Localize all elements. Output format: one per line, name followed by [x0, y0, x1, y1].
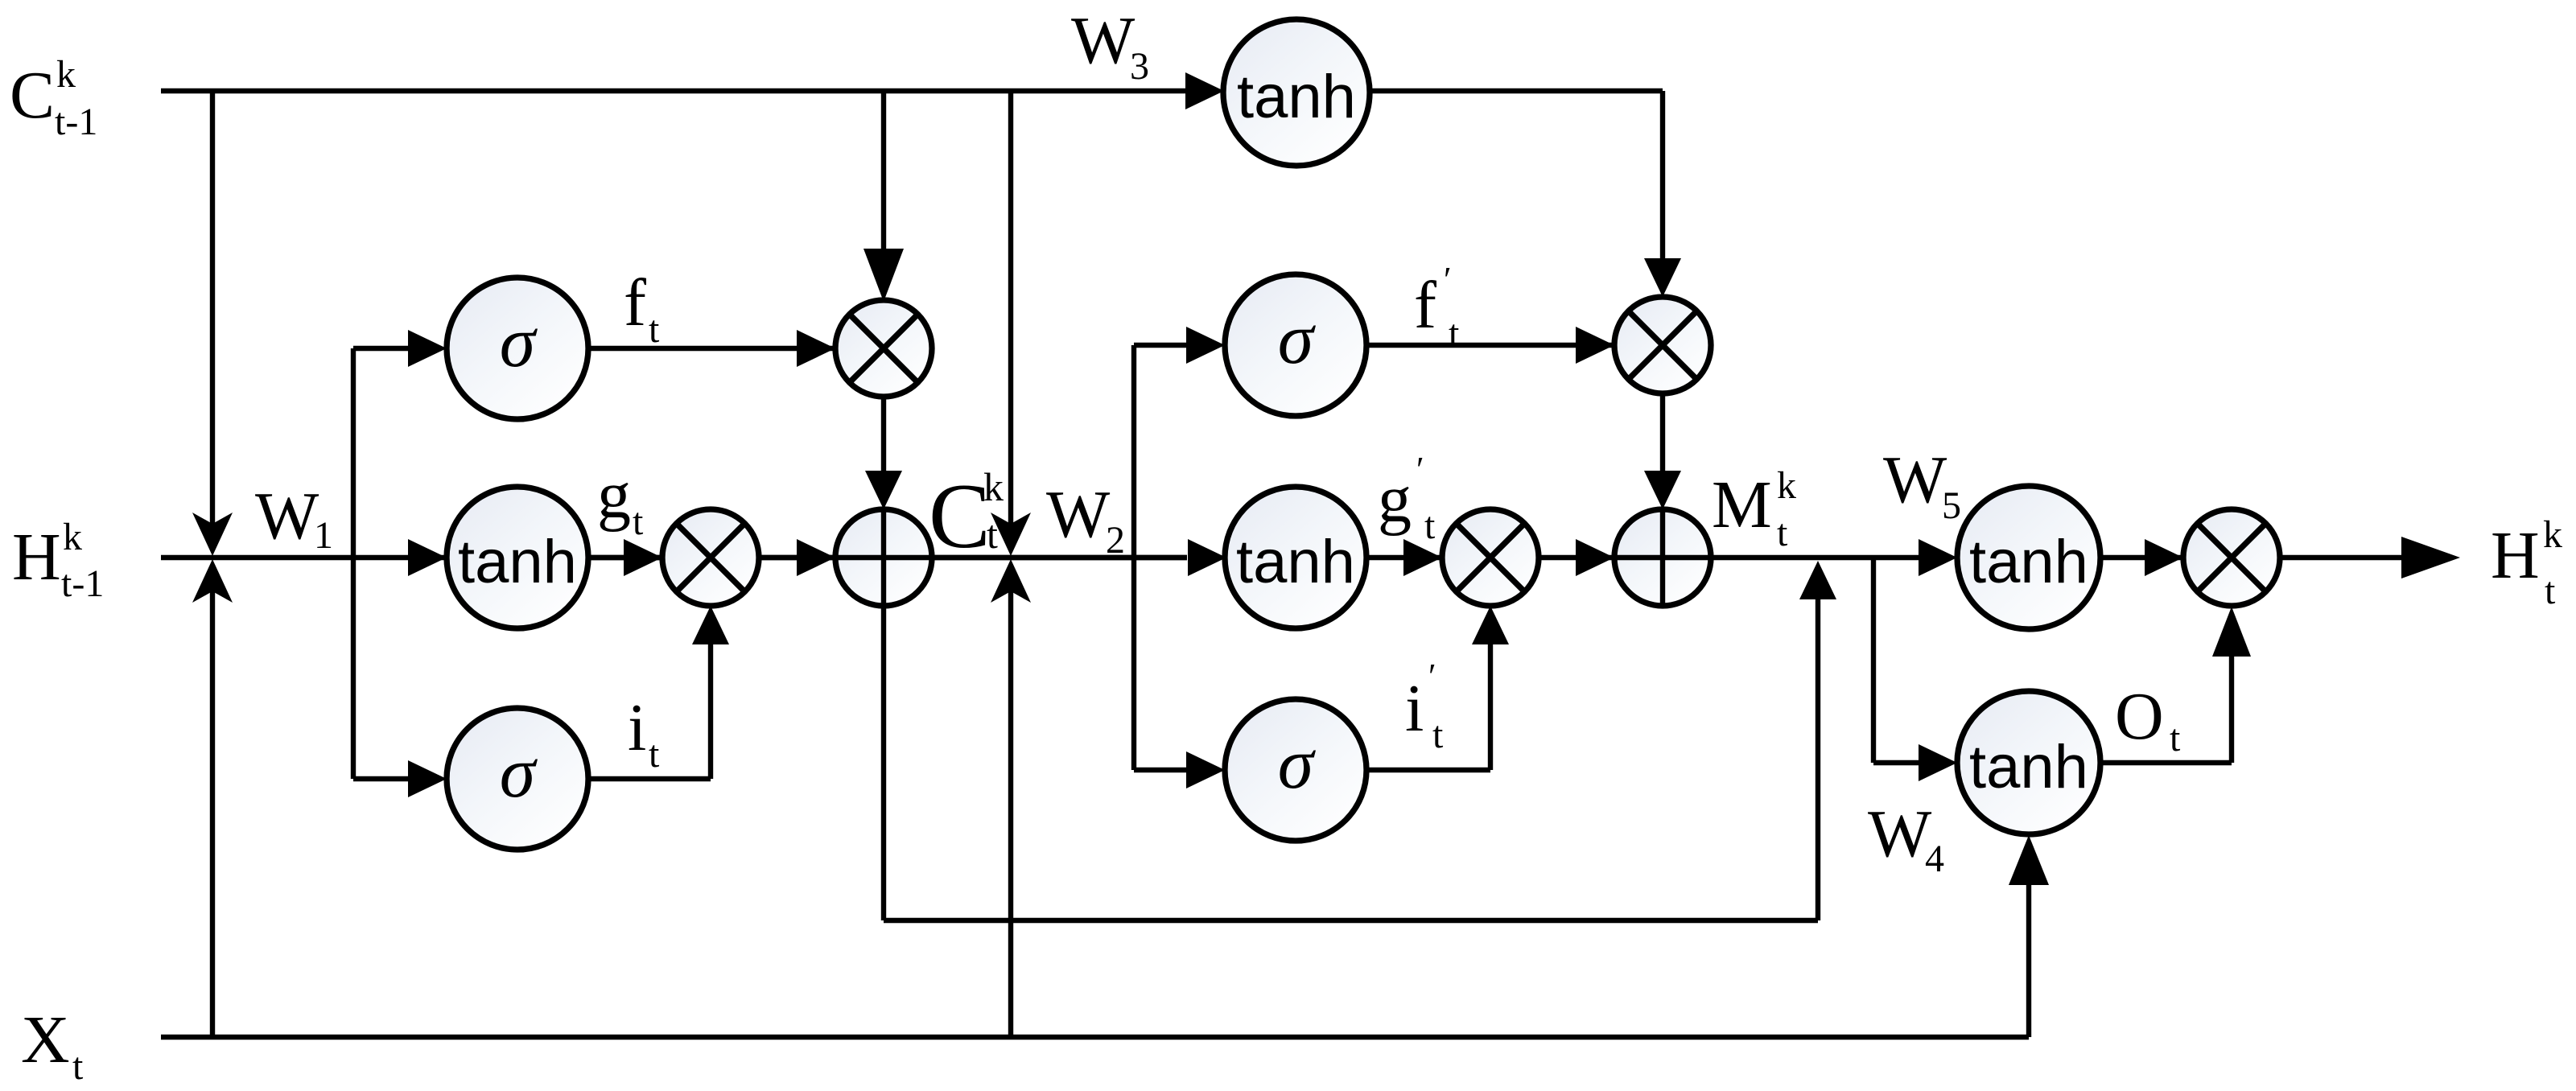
wire multiplier f down to adder C — [881, 397, 886, 476]
wire H(t-1) line into tanh g — [161, 555, 1187, 560]
svg-text:t: t — [1432, 714, 1444, 756]
svg-text:t: t — [2545, 570, 2556, 612]
wire W2 vertical from C line down to H line — [1008, 91, 1013, 524]
svg-text:2: 2 — [1106, 519, 1125, 562]
arrowhead into sigma i2 — [1186, 751, 1225, 788]
svg-text:t: t — [633, 500, 644, 543]
wire tanh g to multiplier g — [588, 555, 666, 560]
label O_t — [2115, 679, 2181, 760]
wire right branch vertical — [1131, 345, 1136, 770]
wire i2_t from sigma i2 right then up to multiplier g2 — [1366, 641, 1490, 770]
svg-text:σ: σ — [500, 303, 538, 382]
arrowhead into adder C top — [865, 471, 902, 509]
arrowhead W2 merge down — [991, 513, 1031, 556]
svg-text:C: C — [929, 465, 991, 567]
svg-text:tanh: tanh — [1237, 63, 1356, 131]
arrowhead into tanh g — [408, 539, 447, 576]
arrowhead W1 merge down — [192, 513, 233, 556]
svg-text:f: f — [624, 266, 646, 340]
op adder M (+) — [1614, 509, 1711, 606]
svg-text:t: t — [72, 1045, 84, 1087]
wire W2 vertical from X line up to H line — [1008, 591, 1013, 1037]
svg-text:k: k — [63, 516, 82, 558]
label W3 — [1071, 3, 1149, 88]
svg-text:tanh: tanh — [1969, 733, 2088, 801]
svg-text:k: k — [2543, 513, 2562, 556]
arrowhead into tanh W3 — [1185, 72, 1224, 109]
op multiplier g2 (x) — [1442, 509, 1539, 606]
label W1 — [255, 479, 333, 557]
arrowhead into multiplier f2 — [1576, 327, 1614, 364]
op tanh W4 — [1957, 691, 2100, 834]
arrowhead into tanh W4 — [1919, 744, 1957, 781]
op multiplier g (x) — [662, 509, 759, 606]
svg-text:t: t — [649, 308, 660, 351]
wire branch to sigma i — [353, 776, 410, 781]
svg-text:t: t — [987, 512, 998, 557]
node X_t input label — [21, 1002, 84, 1088]
svg-text:W: W — [255, 479, 319, 554]
svg-text:′: ′ — [1416, 450, 1424, 489]
svg-text:W: W — [1883, 443, 1947, 517]
wire multiplier g to adder C — [759, 555, 839, 560]
wire branch to sigma i2 — [1134, 768, 1189, 772]
svg-text:t: t — [1449, 312, 1460, 355]
svg-text:W: W — [1046, 477, 1111, 552]
arrowhead into adder M top — [1644, 471, 1681, 509]
arrowhead into multiplier out — [2145, 539, 2183, 576]
op tanh g2 (right candidate) — [1225, 487, 1366, 628]
wire C line branch down into multiplier f — [881, 91, 886, 252]
op tanh g (left candidate) — [447, 487, 588, 628]
op sigma f (left forget gate) — [447, 278, 588, 419]
svg-text:5: 5 — [1942, 484, 1961, 527]
arrowhead into sigma i — [408, 760, 447, 797]
svg-text:t: t — [2170, 717, 2181, 760]
wire f_t from sigma f to multiplier f — [588, 346, 839, 351]
arrowhead into multiplier g — [624, 539, 662, 576]
wire X_t bottom line — [161, 877, 2029, 1037]
svg-text:σ: σ — [500, 733, 538, 813]
wire tanh W4 output right then up to multiplier out — [2100, 653, 2232, 763]
op sigma i (left input gate) — [447, 708, 588, 850]
arrowhead into adder M — [1576, 539, 1614, 576]
wire i_t from sigma i right then up to multiplier g — [588, 641, 711, 779]
svg-text:t: t — [649, 733, 660, 776]
node C(t-1) input label — [10, 53, 97, 143]
svg-text:t: t — [1777, 512, 1788, 554]
svg-text:1: 1 — [314, 514, 333, 557]
wire adder C through W2 junction to tanh g2 — [835, 555, 1187, 560]
svg-text:i: i — [628, 690, 646, 765]
op multiplier f (x) — [835, 300, 932, 397]
node H_t output label — [2491, 513, 2562, 612]
op multiplier out (x) — [2183, 509, 2280, 606]
svg-text:σ: σ — [1278, 724, 1317, 804]
wire multiplier g2 to adder M — [1539, 555, 1618, 560]
wire adder M vertical lower half — [1660, 558, 1665, 606]
wire adder C vertical through circle down to bus, bus right, up to H line — [884, 509, 1818, 920]
svg-text:′: ′ — [1428, 657, 1436, 696]
svg-text:k: k — [56, 53, 76, 96]
svg-text:g: g — [1378, 462, 1412, 537]
arrowhead into multiplier f top — [863, 249, 904, 302]
label i_t — [628, 690, 660, 776]
op tanh W3 — [1223, 19, 1370, 166]
wire left branch vertical — [351, 348, 356, 779]
arrowhead bus merge up into M line — [1799, 561, 1836, 599]
arrowhead into tanh W5 — [1919, 539, 1957, 576]
svg-text:t-1: t-1 — [55, 101, 97, 143]
label W4 — [1868, 797, 1944, 880]
arrowhead into multiplier g bottom — [692, 606, 729, 644]
wire multiplier f2 down to adder M — [1660, 393, 1665, 476]
svg-text:tanh: tanh — [1969, 528, 2088, 596]
arrowhead into sigma f — [408, 330, 447, 367]
arrowhead into top-right multiplier — [1644, 258, 1681, 297]
label W5 — [1883, 443, 1961, 527]
op sigma i2 (right input gate) — [1225, 699, 1366, 841]
arrowhead into tanh g2 — [1188, 539, 1226, 576]
svg-text:k: k — [983, 464, 1004, 509]
node C_t label — [929, 464, 1004, 567]
op sigma f2 (right forget gate) — [1225, 274, 1366, 416]
op adder C (+) — [835, 509, 932, 606]
wire multiplier out to H_t output — [2280, 555, 2406, 560]
wire tanh W3 output right then down to multiplier — [1370, 91, 1663, 260]
svg-text:g: g — [597, 458, 631, 533]
svg-text:C: C — [10, 58, 55, 133]
arrowhead into adder C — [797, 539, 835, 576]
arrowhead into multiplier f — [797, 330, 835, 367]
wire branch to sigma f — [353, 346, 410, 351]
wire f2_t from sigma f2 to multiplier f2 — [1366, 343, 1618, 348]
svg-text:O: O — [2115, 679, 2164, 754]
label f2_t — [1414, 260, 1460, 355]
svg-text:W: W — [1071, 3, 1136, 78]
arrowhead into multiplier g2 bottom — [1472, 606, 1509, 644]
svg-text:H: H — [12, 520, 61, 595]
wire tanh W5 to multiplier out — [2100, 555, 2187, 560]
node H(t-1) input label — [12, 516, 104, 605]
svg-text:H: H — [2491, 518, 2540, 593]
op multiplier f2 (x) — [1614, 297, 1711, 393]
arrowhead into multiplier g2 — [1403, 539, 1442, 576]
arrowhead into tanh W4 bottom — [2009, 835, 2049, 885]
svg-text:i: i — [1405, 671, 1424, 746]
label g_t — [597, 458, 644, 543]
svg-text:′: ′ — [1444, 260, 1452, 299]
svg-text:t: t — [1424, 504, 1436, 547]
svg-text:M: M — [1712, 467, 1772, 542]
arrowhead W2 merge up — [991, 559, 1031, 603]
svg-text:f: f — [1414, 268, 1436, 343]
node M_t label — [1712, 464, 1796, 554]
label f_t — [624, 266, 660, 351]
wire M_t line from adder M to tanh W5 — [1711, 555, 1919, 560]
svg-text:tanh: tanh — [458, 528, 577, 596]
svg-text:σ: σ — [1278, 299, 1317, 379]
svg-text:4: 4 — [1925, 838, 1944, 880]
label W2 — [1046, 477, 1125, 562]
svg-text:k: k — [1777, 464, 1796, 507]
svg-text:3: 3 — [1130, 45, 1149, 88]
wire branch to sigma f2 — [1134, 343, 1189, 348]
arrowhead into sigma f2 — [1186, 327, 1225, 364]
svg-text:t-1: t-1 — [61, 562, 104, 605]
label g2_t — [1378, 450, 1436, 547]
op tanh W5 — [1957, 486, 2100, 629]
wire W4 branch down from M line then right to tanh W4 — [1873, 558, 1919, 763]
arrowhead W1 merge up — [192, 559, 233, 603]
arrowhead H_t output — [2401, 537, 2460, 578]
svg-text:tanh: tanh — [1236, 528, 1355, 596]
arrowhead into multiplier out bottom — [2212, 607, 2251, 657]
wire C(t-1) top horizontal line — [161, 89, 1185, 93]
wire tanh g2 to multiplier g2 — [1366, 555, 1445, 560]
wire W1 vertical from X line up to H line — [210, 591, 215, 1037]
svg-text:W: W — [1868, 797, 1932, 871]
wire W1 vertical from C line down to H line — [210, 91, 215, 524]
svg-text:X: X — [21, 1002, 70, 1077]
label i2_t — [1405, 657, 1444, 756]
